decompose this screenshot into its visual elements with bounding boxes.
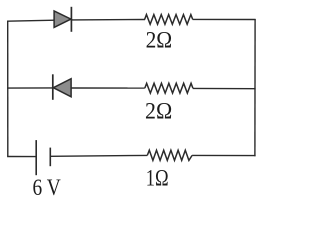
diode D2 (pointing left) triangle (53, 79, 71, 97)
wire: right vertical bus (254, 19, 256, 156)
resistor R3 zigzag (1 ohm, bottom) (147, 150, 192, 160)
battery B1 short plate (49, 148, 51, 167)
wire: bottom branch, resistor R3 to right bus (192, 154, 256, 156)
diode D1 (pointing right) triangle (54, 11, 71, 28)
svg-text:6 V: 6 V (33, 175, 61, 200)
diode D2 cathode bar (52, 74, 54, 100)
wire: left vertical bus (7, 21, 9, 157)
battery B1 long plate (35, 140, 37, 175)
wire: top branch, diode D1 to resistor R1 (71, 19, 145, 21)
wire: top branch, resistor R1 to right bus (193, 18, 256, 20)
wire: middle branch, resistor R2 to right bus (193, 87, 256, 89)
resistor R2 zigzag (2 ohm, middle) (145, 83, 193, 93)
wire: middle branch, left segment to diode D2 (7, 87, 53, 89)
wire: top branch, left segment to diode D1 (7, 20, 55, 21)
wire: bottom branch, battery to resistor R3 (50, 154, 147, 157)
wire: middle branch, diode D2 to resistor R2 (71, 87, 145, 89)
svg-text:2Ω: 2Ω (146, 28, 173, 54)
wire: bottom branch, left segment to battery (7, 156, 36, 158)
svg-text:2Ω: 2Ω (145, 98, 172, 124)
resistor R1 zigzag (2 ohm, top) (145, 15, 193, 25)
svg-text:1Ω: 1Ω (146, 165, 169, 191)
diode D1 cathode bar (70, 7, 72, 32)
